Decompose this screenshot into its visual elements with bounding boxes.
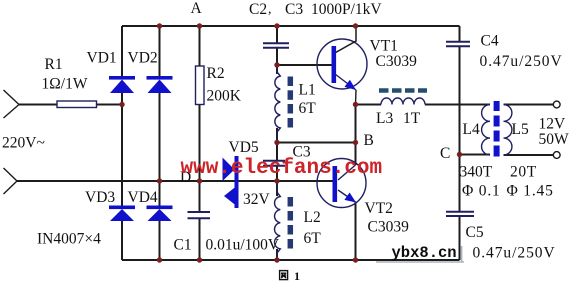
wire C5 to bottom rail — [459, 216, 461, 260]
svg-text:C1: C1 — [174, 237, 192, 254]
transformer core — [494, 101, 500, 157]
junction VD4 bottom rail — [157, 257, 162, 262]
caption figure glyph — [280, 271, 288, 280]
wire R2 bottom to node D to C1 — [199, 105, 201, 212]
svg-text:Φ 1.45: Φ 1.45 — [507, 183, 554, 200]
wire L5 bottom to output terminal — [504, 154, 554, 156]
junction L1 bottom — [274, 140, 279, 145]
transformer primary L4 — [482, 105, 490, 156]
svg-text:6T: 6T — [304, 230, 322, 247]
wire C1 to bottom rail — [199, 219, 201, 261]
svg-text:0.47u/250V: 0.47u/250V — [473, 245, 556, 262]
wire left column VD1/VD3 lower — [121, 221, 123, 260]
emitter arrow of VT2 — [344, 193, 356, 203]
svg-text:VT2: VT2 — [365, 200, 393, 217]
junction C3 VD5 wire — [274, 178, 279, 183]
svg-text:L4: L4 — [463, 121, 480, 138]
resistor R1 — [57, 101, 97, 108]
svg-text:340T: 340T — [460, 164, 493, 181]
core of L3 — [379, 88, 427, 93]
svg-text:IN4007×4: IN4007×4 — [37, 231, 101, 248]
transformer secondary L5 — [504, 105, 512, 156]
svg-text:L5: L5 — [512, 121, 529, 138]
wire L1 bottom to C3 — [276, 128, 278, 161]
svg-text:VD2: VD2 — [128, 50, 158, 67]
svg-text:A: A — [191, 0, 203, 17]
diode VD4 — [147, 206, 173, 222]
svg-text:Φ 0.1: Φ 0.1 — [462, 183, 501, 200]
svg-text:L3: L3 — [376, 110, 393, 127]
svg-text:1Ω/1W: 1Ω/1W — [42, 76, 88, 93]
junction VD2 top rail — [157, 23, 162, 28]
svg-text:L1: L1 — [299, 82, 316, 99]
diode VD1 — [109, 76, 135, 93]
capacitor C3 — [263, 161, 285, 166]
wire VD2/VD4 column lower — [159, 221, 161, 260]
svg-text:C3: C3 — [285, 1, 303, 18]
junction L2 bottom rail — [274, 257, 279, 262]
svg-text:C3039: C3039 — [376, 53, 418, 70]
wire input2 node D to VT2 base — [17, 180, 333, 182]
wire VT2 emitter to bottom rail — [355, 203, 357, 261]
svg-text:12V: 12V — [539, 116, 567, 133]
svg-text:C5: C5 — [466, 224, 484, 241]
svg-text:R1: R1 — [45, 56, 63, 73]
wire node C to L4 — [460, 154, 491, 156]
svg-text:VT1: VT1 — [370, 38, 398, 55]
wire L2 bottom to rail — [276, 249, 278, 260]
wire left column VD1/VD3 middle — [121, 93, 123, 206]
svg-text:R2: R2 — [207, 65, 225, 82]
wire C3 to node then L2 — [276, 166, 278, 197]
junction VT2 emitter bottom rail — [353, 257, 358, 262]
svg-text:1000P/1kV: 1000P/1kV — [311, 1, 382, 18]
node D junction — [197, 178, 202, 183]
svg-text:C: C — [440, 145, 450, 162]
svg-text:,: , — [268, 2, 272, 17]
wire right column C4 to C5 — [459, 46, 461, 212]
transistor VT2 — [317, 159, 366, 208]
base bar of VT1 — [332, 46, 337, 83]
svg-text:VD5: VD5 — [229, 139, 259, 156]
svg-text:20T: 20T — [510, 164, 537, 181]
wire left column VD1/VD3 upper — [121, 26, 123, 76]
wire top rail A — [122, 25, 460, 27]
wire node B horizontal — [277, 142, 356, 144]
junction VT1 emitter L3 — [353, 102, 358, 107]
capacitor C2 — [263, 43, 289, 48]
watermark shadow lines — [376, 246, 464, 262]
zener VD5 — [223, 156, 239, 208]
wire L3 row left — [356, 104, 382, 106]
input terminal arrow 2 — [4, 168, 18, 194]
svg-text:200K: 200K — [207, 88, 242, 105]
node C junction — [457, 152, 462, 157]
wire C2 to L1 — [276, 48, 278, 75]
diode VD2 — [147, 76, 173, 93]
svg-text:32V: 32V — [243, 191, 271, 208]
transistor VT1 — [317, 26, 367, 105]
wire VD2/VD4 column upper — [159, 26, 161, 76]
wire VD2/VD4 column middle — [159, 93, 161, 206]
wire L5 top to output terminal — [504, 104, 554, 106]
wire right column C4 top — [459, 26, 461, 42]
output terminal bottom — [553, 152, 560, 159]
svg-text:50W: 50W — [539, 131, 570, 148]
junction VT1 base — [274, 62, 279, 67]
svg-text:C2: C2 — [249, 1, 267, 18]
svg-text:VD3: VD3 — [85, 189, 115, 206]
core of L2 — [288, 197, 294, 249]
inductor L3 — [381, 98, 425, 105]
svg-text:220V~: 220V~ — [2, 135, 45, 152]
wire L3 row right to transformer — [425, 104, 490, 106]
output terminal top — [553, 101, 560, 108]
capacitor C4 — [446, 42, 470, 46]
core of L1 — [288, 77, 294, 128]
svg-text:B: B — [364, 132, 374, 149]
svg-text:0.01u/100V: 0.01u/100V — [206, 237, 280, 254]
svg-text:1T: 1T — [403, 110, 421, 127]
junction VD4 input2 — [157, 178, 162, 183]
junction C1 bottom rail — [197, 257, 202, 262]
svg-text:C4: C4 — [481, 33, 499, 50]
junction C2 top rail — [274, 23, 279, 28]
svg-text:L2: L2 — [304, 209, 321, 226]
svg-text:www.elecfans.com: www.elecfans.com — [181, 157, 383, 180]
node B junction — [353, 140, 358, 145]
junction VT1 collector top rail — [353, 23, 358, 28]
diode VD3 — [109, 206, 135, 222]
capacitor C5 — [446, 212, 474, 216]
svg-text:6T: 6T — [299, 100, 317, 117]
svg-text:VD4: VD4 — [128, 189, 158, 206]
wire VT1 base — [277, 64, 333, 66]
wire VT2 collector from node B — [355, 143, 357, 166]
junction input1 bridge — [119, 102, 124, 107]
emitter arrow of VT1 — [345, 80, 357, 90]
svg-text:0.47u/250V: 0.47u/250V — [480, 53, 563, 70]
wire bottom rail — [122, 259, 460, 261]
svg-text:ybx8.cn: ybx8.cn — [392, 244, 457, 262]
inductor L1 — [275, 65, 280, 143]
input terminal arrow 1 — [4, 90, 20, 118]
wire input1 to R1 — [19, 104, 57, 106]
wire VT1 emitter junction to node B — [355, 105, 357, 143]
base bar of VT2 — [333, 166, 338, 202]
wire R1 to bridge — [97, 104, 123, 106]
resistor R2 — [196, 66, 205, 105]
wire C2 column top — [276, 26, 278, 43]
svg-text:1: 1 — [294, 269, 300, 283]
svg-text:VD1: VD1 — [87, 50, 117, 67]
wire R2 column top — [199, 26, 201, 66]
capacitor C1 — [188, 212, 211, 218]
junction R2 top rail (node A) — [197, 23, 202, 28]
svg-text:C3039: C3039 — [368, 219, 410, 236]
inductor L2 — [275, 181, 281, 260]
